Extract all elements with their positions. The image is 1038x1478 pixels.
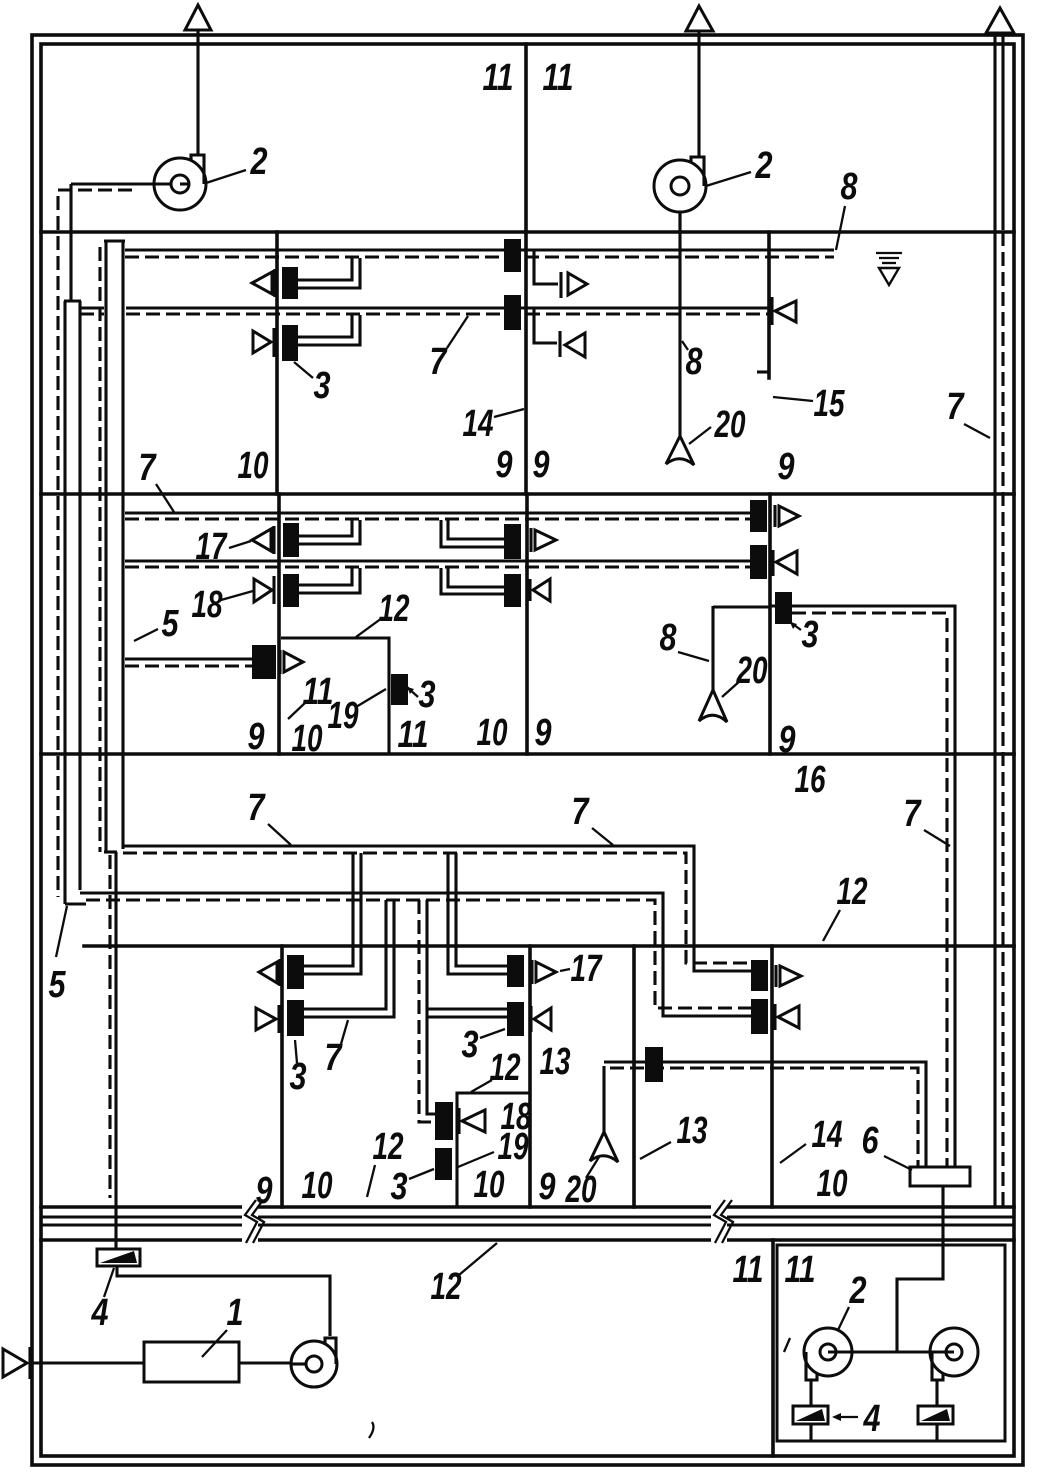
label 3 f4 mid — [462, 1024, 506, 1066]
label 8 f2 — [660, 617, 710, 661]
drop to f4 wall-a lower — [304, 900, 394, 1017]
damper f4 wall-b row2 — [507, 1002, 524, 1036]
svg-text:19: 19 — [498, 1126, 529, 1168]
label 7 corridor left — [248, 787, 292, 845]
label 7 f4 — [325, 1020, 349, 1079]
label 1 — [202, 1292, 244, 1357]
fan outlet right — [935, 1380, 938, 1406]
svg-text:16: 16 — [795, 759, 827, 801]
label 13 f4 b — [640, 1110, 708, 1159]
duct 7 floor2 upper dashed — [125, 517, 751, 520]
label 12 corridor — [823, 871, 868, 941]
grille 18 f4 — [459, 1108, 485, 1134]
duct 7 floor2 lower dashed — [125, 565, 751, 568]
svg-text:20: 20 — [714, 404, 746, 446]
svg-text:2: 2 — [755, 145, 773, 187]
damper f4 wall-b row1 — [507, 955, 524, 987]
label 14 f4 — [780, 1114, 843, 1163]
wall f4-c — [632, 946, 636, 1207]
svg-text:19: 19 — [328, 695, 359, 737]
duct 7 floor1 lower solid — [80, 306, 769, 309]
wall attic — [524, 44, 528, 232]
outlet arrow 20 f1 — [666, 436, 694, 465]
connector duct f1 wall-a row2 — [298, 315, 360, 345]
label 5 shaft A — [49, 906, 68, 1006]
room 12 box f4 — [457, 1093, 530, 1207]
floor slab line 1 — [41, 230, 1014, 234]
riser to basement fan room — [897, 1186, 943, 1352]
heater to fan line — [239, 1361, 292, 1364]
exhaust fan basement left — [804, 1328, 852, 1380]
branch f1 wall-b row2 — [534, 309, 557, 343]
wall f1-a — [275, 232, 279, 494]
label 17 f4 — [560, 948, 603, 990]
label 4 basement left — [91, 1268, 114, 1334]
shaft B dashed companion — [98, 247, 101, 852]
grille f2 wall-b row2 — [530, 579, 550, 601]
svg-text:3: 3 — [462, 1024, 479, 1066]
branch f1 wall-b row1 — [534, 251, 558, 284]
connector f2 wall-a row1 — [299, 520, 360, 544]
damper 3 f1 wall-b row2 — [504, 295, 521, 330]
duct 7 floor1 lower dashed — [80, 312, 769, 315]
wall f2-a — [277, 494, 281, 754]
svg-text:18: 18 — [192, 584, 224, 626]
svg-text:9: 9 — [535, 712, 552, 754]
svg-text:9: 9 — [533, 444, 550, 486]
damper f2 wall-a row2 — [283, 574, 299, 607]
floor slab line 5 (ground floor) — [41, 1205, 1014, 1209]
label 7 corridor right — [904, 793, 951, 846]
damper 4 right fan — [918, 1406, 953, 1424]
wall f1-b — [524, 232, 528, 494]
partition 15 — [767, 232, 771, 378]
right riser solid line — [993, 33, 996, 1207]
duct 7 floor1 upper solid — [125, 248, 834, 251]
label 7 f1 mid — [430, 316, 469, 383]
duct 7 floor2 lower solid — [125, 559, 751, 562]
grille f4 wall-d row2 — [775, 1004, 799, 1030]
duct 8 riser f2 — [711, 606, 714, 691]
svg-text:14: 14 — [812, 1114, 843, 1156]
label 2 — [206, 141, 268, 183]
connector f2 wall-b row2 — [441, 568, 504, 594]
damper f2 wall-c row1 — [750, 500, 767, 532]
label 14 f1 — [463, 403, 525, 445]
svg-text:8: 8 — [841, 166, 859, 208]
damper f4 wall-a row2 — [287, 1000, 304, 1036]
svg-text:9: 9 — [778, 446, 795, 488]
svg-text:3: 3 — [419, 674, 436, 716]
wall f4-a — [280, 946, 284, 1207]
label 3 f1 — [294, 362, 331, 407]
dashed wall companion below shaft — [108, 855, 111, 1198]
dashed companion of fan duct — [58, 190, 132, 897]
svg-text:20: 20 — [565, 1169, 597, 1211]
duct 5 branch f2 — [125, 659, 252, 666]
outlet arrow 20 f2 — [699, 690, 727, 722]
duct 7 floor2 upper solid — [125, 511, 751, 514]
grille f1 wall-a row2 — [253, 328, 274, 357]
outlet arrow 20 f4 — [590, 1132, 618, 1162]
svg-text:10: 10 — [238, 445, 269, 487]
svg-text:10: 10 — [292, 718, 323, 760]
grille f4 wall-d row1 — [776, 965, 801, 987]
damper f2 wall-c row2 — [750, 545, 767, 579]
svg-text:4: 4 — [91, 1292, 109, 1334]
svg-text:9: 9 — [496, 444, 513, 486]
svg-text:12: 12 — [431, 1266, 462, 1308]
svg-text:7: 7 — [430, 341, 448, 383]
fan link line — [828, 1350, 954, 1353]
svg-text:13: 13 — [540, 1041, 571, 1083]
wall f2-c — [768, 494, 772, 754]
svg-text:7: 7 — [139, 447, 157, 489]
svg-text:20: 20 — [736, 650, 768, 692]
svg-text:5: 5 — [162, 603, 180, 645]
label 11 f2 — [288, 671, 334, 719]
underfloor duct line a — [41, 1215, 1014, 1218]
label 7 f1 left — [139, 447, 175, 512]
label 17 — [196, 526, 252, 568]
svg-text:6: 6 — [862, 1120, 880, 1162]
svg-text:11: 11 — [733, 1249, 764, 1291]
svg-text:12: 12 — [373, 1126, 404, 1168]
duct 12 branch right riser — [770, 606, 955, 1167]
label 8 top — [836, 166, 858, 250]
exhaust shaft 5 (right shaft B) — [104, 241, 125, 852]
damper 3 f1 wall-a row1 — [282, 267, 298, 299]
svg-text:2: 2 — [849, 1270, 867, 1312]
damper f2 wall-a row1 — [283, 523, 299, 557]
label 12 f4 — [367, 1126, 404, 1197]
grille f2 wall-c row2 — [773, 550, 797, 576]
floor slab line 3 — [41, 752, 1014, 756]
connector f2 wall-a row2 — [299, 568, 360, 593]
svg-text:17: 17 — [571, 948, 603, 990]
duct 7 corridor upper — [123, 846, 751, 971]
label 3 f4 box — [391, 1166, 435, 1208]
floor slab line 2 — [41, 492, 1014, 496]
damper f4 wall-a row1 — [287, 955, 304, 989]
svg-text:12: 12 — [837, 871, 868, 913]
svg-text:7: 7 — [947, 386, 965, 428]
break symbol right — [711, 1200, 733, 1246]
drop to f4 wall-b lower and damper 18 — [419, 900, 507, 1122]
damper 4 left fan — [793, 1406, 828, 1424]
damper f2 wall-b row2 — [504, 574, 521, 607]
svg-text:9: 9 — [779, 719, 796, 761]
break symbol left — [242, 1200, 264, 1246]
damper 3 f1 wall-a row2 — [282, 325, 298, 361]
wall f4-b — [528, 946, 532, 1207]
basement ceiling line — [41, 1238, 1014, 1242]
supply fan basement — [291, 1338, 337, 1387]
grille f4 wall-b row2 — [531, 1006, 551, 1032]
svg-text:17: 17 — [196, 526, 228, 568]
grille f1 wall-a row1 — [252, 269, 275, 297]
damper f2 wall-b row1 — [504, 524, 521, 559]
svg-text:3: 3 — [391, 1166, 408, 1208]
exhaust fan basement right — [930, 1328, 978, 1380]
label 3 f2 mid — [407, 674, 436, 716]
damper 3 f1 wall-b row1 — [504, 239, 521, 272]
wall f4-d — [770, 946, 774, 1207]
grille f1 wall-b row2 — [560, 331, 585, 357]
fan outlet left — [809, 1380, 812, 1406]
label 12 basement — [431, 1243, 498, 1308]
svg-text:9: 9 — [539, 1166, 556, 1208]
svg-text:11: 11 — [785, 1249, 816, 1291]
svg-text:2: 2 — [250, 141, 268, 183]
svg-text:4: 4 — [863, 1398, 881, 1440]
label 19 f2 — [328, 689, 387, 737]
grille f4 wall-a row2 — [256, 1005, 279, 1033]
connector f2 wall-b row1 — [441, 520, 504, 547]
svg-text:11: 11 — [398, 714, 429, 756]
fan 2 (roof left) — [71, 155, 206, 210]
label 6 — [862, 1120, 913, 1170]
svg-text:7: 7 — [248, 787, 266, 829]
svg-text:11: 11 — [543, 57, 574, 99]
connector duct f1 wall-a row1 — [298, 258, 360, 288]
right riser dashed line — [1001, 33, 1004, 1207]
label 12 f4 box — [471, 1047, 521, 1092]
svg-text:3: 3 — [802, 614, 819, 656]
svg-text:14: 14 — [463, 403, 494, 445]
air heater 1 — [144, 1342, 239, 1382]
svg-text:8: 8 — [660, 617, 678, 659]
damper f4 wall-d row2 — [751, 999, 768, 1034]
svg-text:1: 1 — [227, 1292, 244, 1334]
comma mark — [369, 1422, 373, 1438]
svg-text:9: 9 — [256, 1170, 273, 1212]
svg-text:9: 9 — [248, 716, 265, 758]
label 4 basement right — [832, 1398, 881, 1440]
vent cap 1 — [185, 5, 211, 30]
damper 4 basement left — [97, 1249, 140, 1266]
damper 3 f2 right — [775, 592, 792, 624]
outside air intake — [3, 1347, 144, 1379]
svg-text:12: 12 — [379, 588, 410, 630]
label 3 f4 left — [290, 1040, 307, 1098]
label 3 f2 right — [790, 614, 819, 656]
outlet to floor left — [809, 1424, 812, 1441]
label 5 f2 — [134, 603, 179, 645]
label 2 — [706, 145, 773, 187]
vent stack 2 — [697, 30, 700, 158]
label 15 — [773, 383, 845, 425]
vent stack 1 — [196, 29, 199, 154]
label 19 f4 — [458, 1126, 529, 1168]
svg-text:13: 13 — [677, 1110, 708, 1152]
level mark symbol — [876, 253, 902, 285]
damper 19 f4 — [435, 1148, 452, 1180]
label 8 f1 — [682, 341, 703, 383]
drop to f4 wall-b upper — [448, 853, 507, 974]
label 20 f4 — [565, 1157, 599, 1211]
duct 7 corridor lower — [80, 893, 751, 1016]
svg-text:10: 10 — [302, 1165, 333, 1207]
duct 8 riser f1 — [678, 212, 681, 438]
damper 19 f2 — [391, 674, 408, 705]
svg-text:7: 7 — [572, 791, 590, 833]
grille f2 wall-b row1 — [531, 528, 556, 552]
wall f2-b — [525, 494, 529, 754]
grille f2 wall-c row1 — [775, 505, 799, 527]
damper 13 f4 — [645, 1047, 663, 1082]
fan 2 (roof right) — [654, 157, 706, 232]
exhaust shaft 5 (left shaft A) — [64, 301, 86, 904]
duct 13 f4 — [604, 1062, 926, 1167]
damper f2 duct5 — [252, 645, 276, 679]
underfloor duct line b — [41, 1223, 1014, 1226]
damper 4 basement left riser — [114, 1217, 117, 1249]
fan room box — [777, 1245, 1005, 1441]
duct damper4 to fan — [117, 1266, 330, 1336]
grille f4 wall-a row1 — [259, 959, 280, 986]
grille 17 f2 — [252, 526, 274, 554]
outlet to floor right — [935, 1424, 938, 1441]
svg-text:3: 3 — [290, 1056, 307, 1098]
basement wall right — [771, 1240, 775, 1456]
damper f4 wall-d row1 — [751, 960, 768, 991]
label 7 corridor mid — [572, 791, 614, 845]
damper 18 f4 — [435, 1102, 453, 1140]
grille 18 f2 — [254, 576, 274, 604]
heat exchanger 6 — [910, 1167, 970, 1186]
svg-text:10: 10 — [474, 1164, 505, 1206]
room 12 box f2 — [281, 638, 389, 754]
grille f2 duct5 — [280, 650, 303, 674]
vent cap 3 — [986, 8, 1014, 33]
label 20 f2 — [722, 650, 768, 697]
svg-text:8: 8 — [686, 341, 704, 383]
label 7 right top — [947, 386, 991, 438]
grille f1 wall-b row1 — [561, 272, 587, 298]
label 2 basement — [838, 1270, 867, 1330]
svg-text:11: 11 — [483, 57, 514, 99]
stair wall below shaft — [114, 852, 117, 1217]
svg-text:5: 5 — [49, 964, 67, 1006]
grille 15 partition — [772, 297, 796, 325]
svg-text:10: 10 — [477, 712, 508, 754]
svg-text:3: 3 — [314, 365, 331, 407]
tick mark — [784, 1338, 790, 1352]
floor slab line 4 — [84, 944, 1014, 948]
svg-text:7: 7 — [904, 793, 922, 835]
grille 17 f4 — [532, 960, 556, 984]
label 20 f1 — [689, 404, 746, 446]
svg-text:15: 15 — [814, 383, 846, 425]
label 18 — [192, 584, 254, 626]
label 12 f2 — [356, 588, 410, 637]
vent cap 2 — [686, 6, 713, 31]
svg-text:12: 12 — [490, 1047, 521, 1089]
svg-text:10: 10 — [817, 1163, 848, 1205]
drop to f4 wall-a upper — [304, 853, 361, 974]
duct from fan 2 down to shaft — [69, 184, 72, 301]
duct 7 floor1 upper dashed — [125, 255, 834, 258]
